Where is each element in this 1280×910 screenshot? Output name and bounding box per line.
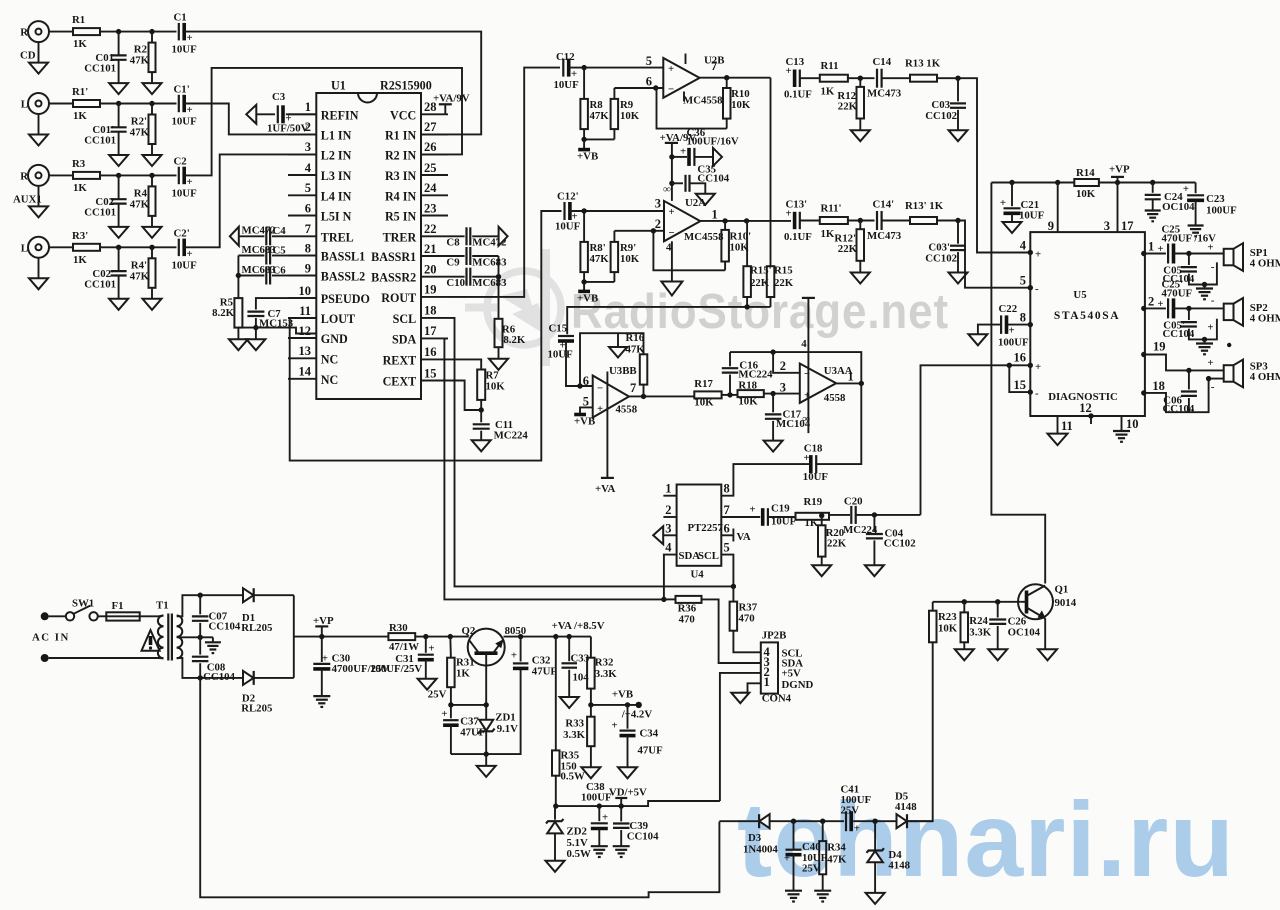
- svg-text:+: +: [668, 63, 674, 75]
- svg-text:R32: R32: [595, 657, 614, 669]
- off-page arrow (REFIN): [246, 105, 256, 124]
- wire U5 top rail: [991, 182, 1074, 184]
- svg-text:U2A: U2A: [685, 197, 706, 209]
- svg-text:8: 8: [305, 241, 311, 255]
- node: [149, 173, 154, 178]
- svg-text:+: +: [1000, 197, 1006, 209]
- node: [198, 593, 203, 598]
- svg-text:MC683: MC683: [472, 277, 507, 289]
- svg-text:T1: T1: [156, 600, 169, 612]
- svg-text:R1: R1: [72, 14, 85, 26]
- svg-text:CC104: CC104: [209, 621, 241, 633]
- off-page arrow (C36): [713, 148, 722, 166]
- wire feedback U2B: [657, 88, 727, 129]
- resistor R12 22K: [837, 78, 864, 130]
- wire net row2 (L CD to U1 pin2 L1IN): [185, 104, 317, 135]
- svg-text:10UF: 10UF: [803, 471, 829, 483]
- capacitor C05 CC104: [1163, 254, 1217, 286]
- wire feedback U2A: [653, 231, 725, 270]
- svg-text:8.2K: 8.2K: [503, 334, 525, 346]
- resistor R37 470: [730, 586, 761, 652]
- ground (R12'): [851, 273, 870, 284]
- node: [722, 218, 727, 223]
- svg-text:25V: 25V: [802, 863, 821, 875]
- input jack J4 (L): [21, 237, 49, 258]
- node: [149, 101, 154, 106]
- svg-text:1K: 1K: [456, 668, 470, 680]
- U4 pin 7 + capacitor C19 10UF: [721, 503, 796, 528]
- U1 pin 18 SCL: [393, 304, 448, 326]
- jack J3 ground: [29, 186, 48, 218]
- node: [955, 218, 960, 223]
- svg-text:1UF/50V: 1UF/50V: [267, 123, 309, 135]
- node: [858, 218, 863, 223]
- U1 pin 9 BASSL2: [288, 261, 365, 283]
- resistor R19 1K: [796, 496, 830, 529]
- power label +VB /+4.2V: [612, 689, 652, 721]
- resistor R36 470: [664, 596, 702, 626]
- svg-text:7: 7: [711, 59, 717, 73]
- diode D2 RL205: [241, 671, 272, 715]
- svg-text:+VB: +VB: [612, 689, 633, 701]
- wire SCL bus (pin18 to U4/JP2B): [448, 318, 733, 587]
- svg-text:12: 12: [1079, 401, 1092, 415]
- svg-text:19: 19: [1153, 339, 1166, 353]
- ground (R24): [955, 649, 974, 660]
- wire SDA to JP2B pin3: [702, 599, 761, 663]
- svg-text:R13 1K: R13 1K: [905, 58, 941, 70]
- capacitor C41 100UF 25V: [841, 784, 872, 835]
- svg-text:+5V: +5V: [782, 668, 802, 680]
- svg-text:R3 IN: R3 IN: [385, 169, 417, 183]
- wire rectifier out to +VP rail: [293, 595, 295, 678]
- svg-text:6: 6: [583, 374, 589, 388]
- svg-text:10K: 10K: [620, 253, 640, 265]
- svg-text:-: -: [1211, 295, 1215, 307]
- svg-text:+: +: [322, 653, 328, 665]
- U1 pin 10 PSEUDO: [288, 284, 370, 306]
- U4 pin 2: [663, 503, 676, 517]
- ground (C02'): [109, 299, 128, 310]
- resistor R15 22K: [767, 78, 794, 307]
- svg-text:R: R: [20, 170, 28, 182]
- resistor R10 10K (feedback): [723, 78, 751, 129]
- svg-text:6: 6: [305, 201, 311, 215]
- resistor R8 47K: [580, 68, 609, 140]
- U1 pin 11 LOUT: [288, 304, 355, 326]
- off-page arrow (TRER): [499, 227, 508, 246]
- U1 pin 17 SDA: [392, 324, 448, 346]
- svg-text:100UF/25V: 100UF/25V: [370, 663, 422, 675]
- svg-text:3: 3: [305, 140, 311, 154]
- capacitor C40 10UF 25V: [784, 821, 828, 890]
- svg-text:47UF: 47UF: [638, 745, 664, 757]
- svg-text:R5 IN: R5 IN: [385, 210, 417, 224]
- U1 pin 3 L2 IN: [288, 140, 352, 162]
- wire filter1 out to U5 pin4: [965, 78, 1030, 252]
- wire bottom bus (C37/ZD1/C32): [451, 669, 521, 755]
- svg-text:10UF: 10UF: [548, 349, 574, 361]
- capacitor C12' 10UF: [555, 191, 581, 233]
- svg-text:3.3K: 3.3K: [595, 668, 617, 680]
- svg-text:CC104: CC104: [203, 671, 235, 683]
- svg-text:REFIN: REFIN: [321, 108, 359, 122]
- node: [484, 751, 489, 756]
- switch SW1: [49, 598, 98, 621]
- svg-text:PSEUDO: PSEUDO: [321, 292, 370, 306]
- node: [484, 702, 489, 707]
- ground (C04): [865, 565, 884, 576]
- svg-text:10UF: 10UF: [172, 116, 198, 128]
- svg-text:VD/+5V: VD/+5V: [609, 787, 647, 799]
- resistor R31 1K: [447, 637, 475, 705]
- svg-text:Q2: Q2: [462, 625, 476, 637]
- U5 pin4: [1020, 239, 1041, 261]
- svg-text:5: 5: [646, 54, 652, 68]
- node: [859, 381, 864, 386]
- wire JP2B pin2 +5V: [720, 673, 761, 801]
- svg-text:10UF: 10UF: [555, 221, 581, 233]
- earth ground (C30): [313, 695, 330, 697]
- svg-text:CC101: CC101: [84, 278, 116, 290]
- wire U2B out: [700, 77, 771, 79]
- svg-text:BASSL1: BASSL1: [321, 250, 365, 264]
- svg-text:6: 6: [646, 75, 652, 89]
- jack J4 ground: [29, 258, 48, 290]
- zener ZD2 5.1V 0.5W: [546, 806, 591, 861]
- svg-text:U5: U5: [1073, 289, 1086, 301]
- ground (ZD2): [546, 861, 565, 872]
- wire C12 to U2B +in: [569, 67, 664, 69]
- svg-text:CC104: CC104: [1163, 328, 1195, 340]
- svg-text:PT2257: PT2257: [688, 522, 724, 534]
- wire secondary bottom tap: [177, 658, 294, 678]
- wire LOUT (pin11) loop to C12prime: [288, 211, 562, 461]
- wire U3BB out: [629, 395, 694, 397]
- ground (R2'): [143, 155, 162, 166]
- wire R5/C7 to GND pin12: [238, 328, 316, 334]
- wire: [882, 220, 910, 222]
- svg-text:7: 7: [724, 503, 730, 517]
- svg-text:U3BB: U3BB: [609, 365, 637, 377]
- zener ZD1 9.1V: [478, 712, 518, 755]
- svg-text:BASSR1: BASSR1: [371, 250, 416, 264]
- svg-text:21: 21: [424, 242, 437, 256]
- wire to pin2: [773, 352, 800, 373]
- resistor R12' 22K: [834, 221, 864, 273]
- svg-text:4 OHM: 4 OHM: [1250, 313, 1280, 325]
- svg-text:R11': R11': [821, 203, 842, 215]
- wire: [882, 77, 910, 79]
- U1 pin 8 BASSL1: [288, 241, 365, 263]
- ground (R4'): [143, 299, 162, 310]
- svg-text:+: +: [1207, 242, 1213, 254]
- node (SCL/R37): [731, 584, 736, 589]
- ground (R33): [581, 767, 600, 778]
- node: [744, 218, 749, 223]
- svg-text:R30: R30: [389, 622, 408, 634]
- node: [1009, 180, 1014, 185]
- ground (C35): [696, 194, 715, 205]
- svg-text:47K: 47K: [626, 344, 646, 356]
- svg-text:22K: 22K: [838, 101, 858, 113]
- node: [553, 803, 558, 808]
- node: [496, 274, 501, 279]
- svg-text:1K: 1K: [805, 517, 819, 529]
- jack J1 ground: [29, 42, 48, 74]
- wire rail to Q1 collector: [991, 183, 1045, 584]
- earth ground (C38): [591, 845, 608, 847]
- transistor Q2 8050: [462, 625, 527, 666]
- svg-text:1N4004: 1N4004: [743, 844, 778, 856]
- wire: [856, 514, 921, 516]
- svg-text:AC IN: AC IN: [32, 632, 70, 644]
- capacitor C03 CC102: [925, 78, 966, 130]
- op IC U5 STA540SA body: [1030, 232, 1145, 416]
- svg-text:C6: C6: [273, 264, 287, 276]
- svg-text:1K: 1K: [73, 254, 87, 266]
- node: [858, 76, 863, 81]
- svg-text:1: 1: [712, 208, 718, 222]
- wire R23 to D5: [908, 642, 932, 821]
- node: [669, 154, 674, 159]
- node: [653, 85, 658, 90]
- AC IN terminals: [32, 612, 70, 662]
- svg-text:1K: 1K: [73, 110, 87, 122]
- svg-text:CD: CD: [20, 50, 36, 62]
- resistor R1' 1K: [72, 86, 100, 122]
- node: [962, 599, 967, 604]
- capacitor C2 10UF: [172, 155, 198, 199]
- op-amp U3AA 4558: [780, 298, 854, 433]
- svg-text:F1: F1: [112, 600, 124, 612]
- wire: [100, 31, 177, 33]
- svg-text:1K: 1K: [821, 86, 835, 98]
- svg-text:+: +: [597, 403, 603, 415]
- svg-text:100UF: 100UF: [1206, 205, 1237, 217]
- ground (R5): [229, 328, 248, 351]
- wire jack to R: [49, 31, 73, 33]
- svg-text:C2': C2': [174, 227, 190, 239]
- ground (C7): [246, 328, 265, 351]
- U5 pin18 wire: [1141, 379, 1224, 413]
- svg-text:+: +: [669, 206, 675, 218]
- svg-text:100UF/16V: 100UF/16V: [687, 136, 739, 148]
- node: [149, 245, 154, 250]
- svg-text:OC104: OC104: [1162, 201, 1195, 213]
- fuse F1: [98, 600, 140, 621]
- U1 pin 26 R2 IN: [385, 140, 448, 162]
- wire R31/C37 junction row: [451, 704, 486, 706]
- node: [724, 75, 729, 80]
- svg-text:27: 27: [424, 120, 437, 134]
- node: [236, 273, 241, 278]
- ground (R2): [143, 83, 162, 94]
- wire Q2 base down: [485, 653, 487, 719]
- svg-text:R1 IN: R1 IN: [385, 128, 417, 142]
- node: [553, 634, 558, 639]
- wire CEXT to R7 bottom: [448, 381, 481, 411]
- svg-text:2: 2: [780, 359, 786, 373]
- svg-text:C1: C1: [174, 12, 187, 24]
- svg-text:+VA /+8.5V: +VA /+8.5V: [552, 620, 605, 632]
- svg-text:16: 16: [424, 345, 437, 359]
- capacitor C17 MC104: [765, 394, 811, 441]
- svg-text:5: 5: [1020, 274, 1026, 288]
- node: [819, 513, 824, 518]
- node: [1186, 251, 1191, 256]
- U5 pin1 + capacitor C25 470UF/16V: [1141, 224, 1224, 264]
- earth ground (SP1): [1196, 285, 1213, 300]
- svg-text:10: 10: [299, 284, 312, 298]
- svg-text:+: +: [602, 812, 608, 824]
- capacitor C04 CC102: [866, 515, 916, 565]
- wire: [937, 220, 965, 222]
- wire Q1 emitter to ground: [1038, 619, 1057, 661]
- ground (C02): [109, 227, 128, 238]
- resistor R13 1K: [905, 58, 941, 82]
- svg-text:470: 470: [679, 614, 695, 626]
- capacitor C34 47UF: [611, 705, 663, 767]
- svg-text:C14: C14: [873, 56, 892, 68]
- resistor R11' 1K: [820, 203, 848, 241]
- U1 pin 19 ROUT: [381, 283, 448, 305]
- wire: [100, 246, 177, 248]
- JP2B pin1 DGND + ground: [731, 683, 761, 703]
- svg-text:C1': C1': [174, 84, 190, 96]
- svg-text:+VP: +VP: [313, 615, 334, 627]
- wire +VP rail: [294, 636, 389, 638]
- earth ground (C24): [1145, 209, 1161, 211]
- wire: [848, 77, 875, 79]
- svg-text:47K: 47K: [130, 198, 150, 210]
- resistor R32 3.3K: [587, 637, 617, 705]
- svg-text:CC102: CC102: [884, 538, 916, 550]
- svg-text:10K: 10K: [620, 110, 640, 122]
- wire pin2 row: [614, 230, 664, 232]
- svg-text:C12: C12: [556, 51, 575, 63]
- svg-text:19: 19: [424, 283, 437, 297]
- svg-text:9: 9: [1048, 219, 1054, 233]
- svg-text:C5: C5: [273, 244, 286, 256]
- ground (C01): [109, 83, 128, 94]
- U5 pin12 stub: [1088, 413, 1093, 424]
- transistor Q1 9014: [1018, 584, 1077, 620]
- svg-text:+: +: [611, 720, 617, 732]
- node: [448, 702, 453, 707]
- capacitor C33 104: [562, 637, 590, 697]
- capacitor C13' 0.1UF: [784, 199, 812, 244]
- wire bus C5/C6 left to R5: [237, 256, 239, 299]
- power +VP: [1109, 164, 1130, 183]
- svg-text:CEXT: CEXT: [383, 375, 417, 389]
- wire jack to R: [49, 103, 73, 105]
- ground (C33): [560, 697, 579, 708]
- svg-text:10UF: 10UF: [172, 187, 198, 199]
- node: [727, 392, 732, 397]
- svg-text:CC102: CC102: [925, 253, 957, 265]
- svg-text:R1': R1': [72, 86, 88, 98]
- resistor R34 47K: [819, 821, 847, 890]
- warning triangle: [142, 630, 160, 651]
- resistor R3 1K: [72, 158, 100, 194]
- svg-text:Q1: Q1: [1055, 584, 1069, 596]
- ground (ZD1 node): [477, 754, 496, 777]
- svg-text:5: 5: [305, 181, 311, 195]
- svg-text:+: +: [1183, 183, 1189, 195]
- node: [1150, 180, 1155, 185]
- svg-text:ZD1: ZD1: [495, 712, 515, 724]
- U5 pin16: [1014, 351, 1042, 374]
- wire secondary center tap: [177, 636, 201, 638]
- svg-text:+VB: +VB: [574, 416, 595, 428]
- svg-text:+: +: [441, 708, 447, 720]
- wire: [100, 174, 177, 176]
- U1 pin 13 NC: [288, 344, 338, 366]
- capacitor C15 10UF: [548, 323, 575, 361]
- capacitor C3 1UF/50V: [256, 91, 316, 135]
- U4 pin 3 + arrow: [653, 521, 676, 544]
- svg-text:10K: 10K: [938, 623, 958, 635]
- svg-text:RadioStorage.net: RadioStorage.net: [571, 285, 949, 339]
- svg-text:9.1V: 9.1V: [497, 723, 518, 735]
- capacitor C22 100UF: [978, 303, 1030, 349]
- svg-text:10UF: 10UF: [172, 44, 198, 56]
- ground (C03'): [949, 273, 968, 284]
- svg-text:C23: C23: [1206, 193, 1225, 205]
- connector JP2B CON4: [761, 630, 814, 705]
- node: [791, 819, 796, 824]
- svg-text:MC224: MC224: [494, 430, 529, 442]
- svg-text:13: 13: [299, 344, 312, 358]
- svg-text:3: 3: [780, 381, 786, 395]
- svg-text:AUX1: AUX1: [13, 193, 42, 205]
- input jack J2 (L): [21, 93, 49, 114]
- svg-text:R16: R16: [626, 332, 645, 344]
- svg-text:C2: C2: [174, 155, 187, 167]
- ground (C22): [968, 334, 987, 345]
- svg-text:4558: 4558: [616, 404, 638, 416]
- resistor R15' 22K: [743, 221, 771, 307]
- wire sub signal to U5 pin16: [921, 365, 1031, 515]
- node: [198, 675, 203, 680]
- node: [1115, 180, 1120, 185]
- node: [149, 29, 154, 34]
- capacitor C6 MC683: [238, 264, 288, 285]
- node: [423, 634, 428, 639]
- svg-text:CC104: CC104: [1163, 403, 1195, 415]
- ground (C01'): [109, 155, 128, 166]
- power +VB (U3BB pin5): [574, 407, 595, 427]
- node: [872, 512, 877, 517]
- U1 pin 2 L1 IN: [288, 120, 352, 142]
- node: [1186, 306, 1191, 311]
- svg-text:10UF: 10UF: [1019, 210, 1045, 222]
- svg-text:3: 3: [655, 197, 661, 211]
- U5 pin5: [1020, 274, 1039, 295]
- svg-text:MC473: MC473: [867, 230, 902, 242]
- capacitor C01 CC101: [84, 32, 126, 84]
- node: [116, 29, 121, 34]
- U1 pin 28 VCC: [390, 100, 448, 122]
- wire R8/R9 bottoms: [584, 138, 614, 140]
- speaker SP3 4 OHM: [1207, 357, 1280, 393]
- svg-text:-: -: [1035, 388, 1039, 400]
- wire D3 row: [719, 820, 759, 822]
- svg-text:14: 14: [299, 365, 312, 379]
- ground (R12): [851, 130, 870, 141]
- resistor R4' 47K: [130, 247, 156, 298]
